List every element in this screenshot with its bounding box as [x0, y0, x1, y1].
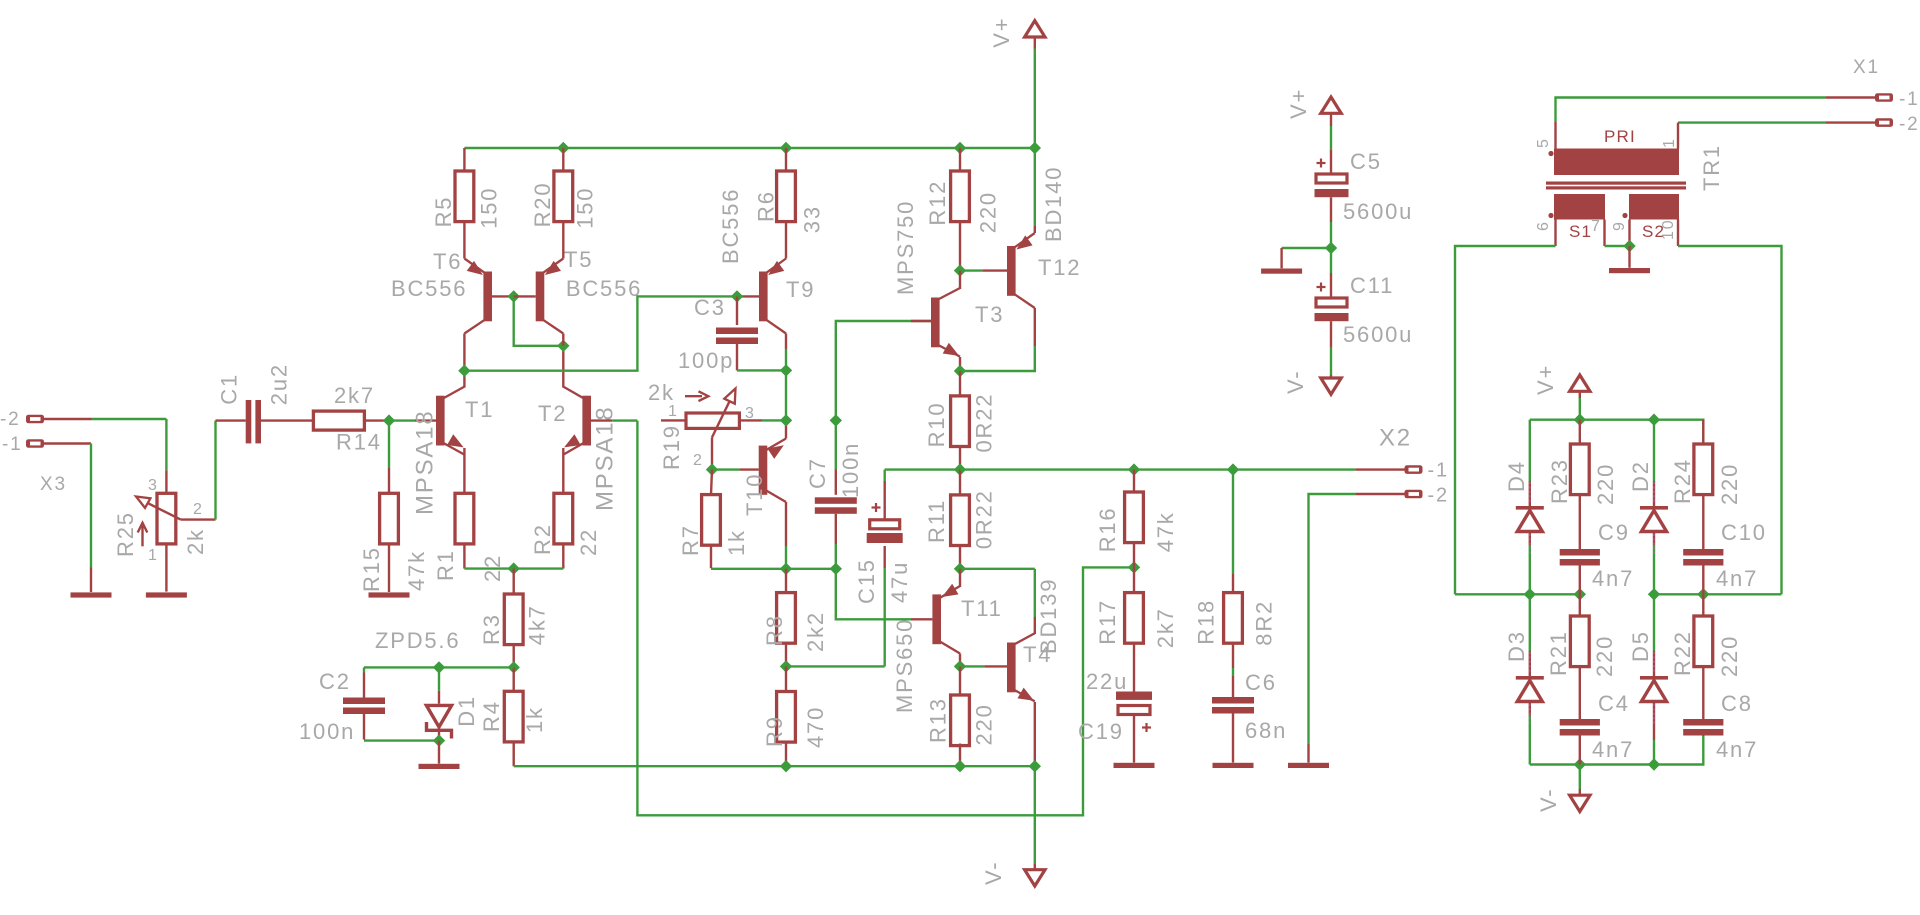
- capacitor C2: [343, 667, 439, 740]
- label BD140: [1041, 166, 1066, 242]
- label T12: [1038, 255, 1081, 280]
- label 4k7: [525, 604, 550, 645]
- TR1 pin1 label: [1661, 137, 1678, 148]
- TR1 pin7 label: [1591, 218, 1602, 235]
- junction emitters node: [508, 562, 520, 574]
- junction VAS/R19 pin3: [780, 414, 792, 426]
- transistor T10: [759, 439, 786, 503]
- svg-text:1k: 1k: [522, 706, 547, 733]
- label T4: [1023, 642, 1052, 667]
- junction T9 base/C3: [731, 290, 743, 302]
- label D1: [454, 695, 479, 727]
- label R19: [659, 424, 684, 470]
- wire T5 collector to T2: [562, 334, 564, 346]
- svg-text:C9: C9: [1598, 520, 1630, 545]
- label R13: [925, 697, 950, 743]
- label 220 R13: [972, 703, 997, 745]
- wire T11 emitter up: [959, 569, 961, 587]
- wire rect bottom rail: [1530, 736, 1704, 765]
- svg-text:MPSA18: MPSA18: [412, 409, 439, 515]
- svg-text:T6: T6: [433, 249, 462, 274]
- label 47k R16: [1153, 511, 1178, 552]
- svg-text:R19: R19: [659, 424, 684, 470]
- label R7: [678, 524, 703, 556]
- label 2k2: [803, 611, 828, 652]
- svg-text:2k7: 2k7: [334, 383, 375, 408]
- wire R12 to node: [959, 222, 961, 271]
- junction psu mid: [1325, 242, 1337, 254]
- label 68n: [1245, 718, 1287, 743]
- wire X3-2 to node: [44, 418, 166, 420]
- svg-text:X3: X3: [40, 474, 67, 495]
- svg-text:BC556: BC556: [566, 276, 642, 301]
- R25 adjust arrow: [138, 523, 148, 547]
- resistor R13: [951, 666, 970, 745]
- svg-text:100n: 100n: [299, 719, 355, 744]
- label C5: [1350, 149, 1382, 174]
- svg-text:V+: V+: [1286, 88, 1311, 119]
- label MPSA18 T2: [592, 405, 619, 511]
- label 5600u C5: [1343, 199, 1413, 224]
- svg-text:C10: C10: [1721, 520, 1767, 545]
- junction T11 collector/T4 base: [954, 660, 966, 672]
- label R9: [762, 715, 787, 747]
- label C1: [217, 373, 242, 405]
- capacitor C8: [1683, 667, 1723, 736]
- svg-text:220: 220: [972, 703, 997, 745]
- wire mirror base down: [514, 296, 564, 345]
- label T3: [975, 302, 1004, 327]
- svg-text:BD140: BD140: [1041, 166, 1066, 242]
- label C4: [1598, 691, 1630, 716]
- wire T9 collector: [785, 334, 787, 371]
- svg-text:V-: V-: [1283, 370, 1308, 394]
- junction at R14/T1 base: [383, 414, 395, 426]
- svg-text:MPS750: MPS750: [893, 200, 918, 295]
- svg-text:R17: R17: [1095, 599, 1120, 645]
- ground for X2-2: [1288, 763, 1329, 768]
- TR1 pin9 dot: [1622, 213, 1627, 218]
- wire R11 to emitter node: [959, 546, 961, 569]
- label C9: [1598, 520, 1630, 545]
- wire R2 to emitter node: [514, 544, 564, 569]
- label 0R22 R11: [972, 489, 997, 549]
- C11 plus sign: [1317, 283, 1326, 292]
- svg-text:1: 1: [668, 403, 679, 420]
- capacitor C7: [815, 420, 857, 568]
- junction R16/R17: [1128, 561, 1140, 573]
- junction TR1 center tap: [1623, 240, 1635, 252]
- wire R19 wiper down: [711, 437, 713, 469]
- ground for R25: [146, 592, 187, 597]
- svg-text:C1: C1: [217, 373, 242, 405]
- transistor T4: [1007, 633, 1035, 701]
- label 220 R23: [1593, 463, 1618, 505]
- label 1k R7: [724, 529, 749, 556]
- label C10: [1721, 520, 1767, 545]
- TR1 pin10 label: [1660, 219, 1677, 240]
- svg-text:R21: R21: [1546, 630, 1571, 676]
- wire T10 emitter: [785, 420, 787, 438]
- ground for C19: [1114, 763, 1155, 768]
- wire X2-2 to ground: [1309, 494, 1405, 763]
- wire VAS feed: [464, 296, 737, 370]
- transistor T9: [759, 259, 786, 334]
- svg-text:2k7: 2k7: [1153, 607, 1178, 648]
- ground psu: [1261, 269, 1302, 274]
- svg-text:D2: D2: [1628, 460, 1653, 492]
- junction top rail D2: [1648, 414, 1660, 426]
- svg-text:68n: 68n: [1245, 718, 1287, 743]
- label R18: [1194, 599, 1219, 645]
- resistor R20: [554, 148, 573, 222]
- resistor R8: [777, 569, 796, 643]
- potentiometer R25 body: [157, 470, 176, 591]
- wire TR1 pin10 to rectifier: [1678, 220, 1782, 595]
- transistor T6: [464, 259, 492, 334]
- zener diode D1: [426, 667, 451, 740]
- label 5600u C11: [1343, 322, 1413, 347]
- svg-text:D5: D5: [1628, 630, 1653, 662]
- svg-text:2: 2: [693, 452, 704, 469]
- resistor R4: [504, 667, 523, 741]
- label V- bottom: [981, 861, 1006, 885]
- svg-text:PRI: PRI: [1604, 127, 1636, 146]
- svg-text:R15: R15: [359, 546, 384, 592]
- junction top rail R23: [1574, 414, 1586, 426]
- svg-text:C2: C2: [319, 669, 351, 694]
- label 220 R21: [1592, 635, 1617, 677]
- svg-text:9: 9: [1611, 220, 1628, 231]
- wire T6 collector down: [463, 334, 465, 371]
- label C7: [805, 457, 830, 489]
- svg-text:47u: 47u: [887, 561, 912, 603]
- junction bottom rail T4: [1029, 760, 1041, 772]
- svg-text:V-: V-: [1536, 788, 1561, 812]
- wire R25 pin2 up to C1: [214, 421, 216, 520]
- svg-text:8R2: 8R2: [1252, 600, 1277, 646]
- wire T10 collector down: [785, 502, 787, 569]
- power V- arrow bottom: [1025, 766, 1045, 886]
- wire X1-1 to TR1 pin5: [1556, 98, 1876, 149]
- label V+ psu: [1286, 88, 1311, 119]
- label 22 R1: [480, 554, 505, 582]
- label 2k7 R17: [1153, 607, 1178, 648]
- diode D5: [1640, 594, 1668, 764]
- svg-text:-1: -1: [1899, 89, 1920, 110]
- capacitor C19 electrolytic: [1116, 643, 1152, 762]
- svg-text:470: 470: [803, 706, 828, 748]
- label 100n C7: [838, 442, 863, 498]
- svg-text:47k: 47k: [404, 550, 429, 591]
- label 150 R5: [477, 187, 502, 229]
- wire T4 emitter down: [1034, 702, 1036, 766]
- label T10: [742, 473, 767, 516]
- wire T3 base pin: [911, 320, 931, 322]
- svg-text:C11: C11: [1350, 273, 1394, 298]
- wire R16 to fb node: [1133, 543, 1135, 568]
- wire node to C15: [786, 665, 885, 667]
- capacitor C5 electrolytic: [1315, 174, 1349, 197]
- wire R14 to T1 base: [364, 419, 436, 421]
- label R10: [924, 402, 949, 448]
- svg-text:150: 150: [477, 187, 502, 229]
- svg-text:T5: T5: [564, 247, 593, 272]
- ground for R15: [369, 592, 410, 597]
- resistor R24: [1694, 420, 1713, 495]
- junction mid rail D4: [1524, 588, 1536, 600]
- svg-text:3: 3: [745, 405, 756, 422]
- svg-text:V+: V+: [1533, 364, 1558, 395]
- wire T3 base run: [836, 321, 931, 420]
- label 4n7 C10: [1716, 566, 1758, 591]
- power V+ arrow psu: [1321, 97, 1341, 174]
- svg-text:C15: C15: [854, 558, 879, 604]
- svg-text:2k: 2k: [648, 380, 675, 405]
- svg-text:1k: 1k: [724, 529, 749, 556]
- trimmer R19 body: [661, 413, 786, 428]
- svg-text:ZPD5.6: ZPD5.6: [375, 628, 460, 653]
- label 220 R24: [1717, 463, 1742, 505]
- label PRI: [1604, 127, 1636, 146]
- wire R20 to T5 emitter: [562, 222, 564, 259]
- svg-text:100n: 100n: [838, 442, 863, 498]
- wire X3-2 down to R25 pin3: [165, 419, 167, 470]
- label R16: [1095, 507, 1120, 553]
- svg-text:5600u: 5600u: [1343, 199, 1413, 224]
- label C8: [1721, 691, 1753, 716]
- capacitor C10: [1683, 495, 1723, 595]
- junction mid rail R23col: [1574, 588, 1586, 600]
- wire T2 emitter to R2: [562, 448, 564, 493]
- R19 adjust arrow: [685, 391, 708, 401]
- wire VAS node down: [785, 370, 787, 420]
- svg-text:T9: T9: [786, 277, 815, 302]
- junction output rail R18: [1227, 463, 1239, 475]
- svg-text:R11: R11: [924, 499, 949, 543]
- junction bottom rail R9: [780, 760, 792, 772]
- R25 pin label 1: [148, 547, 159, 564]
- svg-text:33: 33: [799, 205, 824, 233]
- junction T9 collector node: [780, 364, 792, 376]
- resistor R9: [777, 666, 796, 742]
- svg-text:R24: R24: [1670, 458, 1695, 504]
- svg-text:R18: R18: [1194, 599, 1219, 645]
- wire down to R15: [388, 421, 390, 494]
- wire rect mid rail right: [1654, 593, 1782, 595]
- junction T10 collector node: [780, 563, 792, 575]
- svg-text:C6: C6: [1245, 670, 1277, 695]
- C5 plus sign: [1317, 159, 1326, 168]
- svg-text:R22: R22: [1670, 630, 1695, 676]
- wire C1 left: [216, 419, 246, 421]
- label X1: [1853, 57, 1880, 78]
- label S2: [1642, 222, 1665, 241]
- power V- arrow rect: [1570, 765, 1590, 812]
- capacitor C6: [1212, 643, 1254, 762]
- svg-text:220: 220: [1592, 635, 1617, 677]
- wire V+ rail: [464, 147, 1034, 149]
- label 2k R19: [648, 380, 675, 405]
- transformer TR1 secondary S1: [1554, 194, 1605, 220]
- wire T2 base: [591, 419, 637, 421]
- junction rail R12: [954, 142, 966, 154]
- junction output rail R10/R11: [954, 463, 966, 475]
- capacitor C3: [716, 296, 786, 370]
- wire rect mid rail left: [1455, 593, 1580, 595]
- wire T2 collector: [562, 346, 564, 388]
- transformer TR1 primary: [1554, 149, 1679, 176]
- label 8R2: [1252, 600, 1277, 646]
- R25 pin 2 line: [181, 518, 216, 520]
- R25 wiper arrow: [136, 497, 181, 520]
- power V+ arrow top: [1025, 21, 1045, 148]
- label R5: [431, 196, 456, 228]
- svg-text:R25: R25: [113, 511, 138, 557]
- connector X2 pin -2: [1405, 485, 1449, 507]
- svg-text:R12: R12: [925, 180, 950, 226]
- wire T6 base to junction: [492, 295, 514, 297]
- label 33: [799, 205, 824, 233]
- svg-text:0R22: 0R22: [972, 489, 997, 549]
- svg-text:C3: C3: [694, 295, 726, 320]
- svg-text:X1: X1: [1853, 57, 1880, 78]
- label MPS750: [893, 200, 918, 295]
- transformer TR1 core: [1546, 182, 1686, 190]
- label R21: [1546, 630, 1571, 676]
- label R15: [359, 546, 384, 592]
- svg-text:-2: -2: [0, 409, 21, 430]
- svg-text:4n7: 4n7: [1716, 737, 1758, 762]
- junction T3 emitter/R10: [954, 365, 966, 377]
- wire T5 base: [514, 295, 536, 297]
- svg-text:T1: T1: [465, 397, 494, 422]
- svg-text:BD139: BD139: [1036, 578, 1061, 654]
- svg-text:R23: R23: [1547, 458, 1572, 504]
- TR1 pin5 dot: [1548, 151, 1553, 156]
- diode D4: [1516, 420, 1544, 595]
- C19 plus sign: [1142, 723, 1151, 732]
- label T9: [786, 277, 815, 302]
- label R17: [1095, 599, 1120, 645]
- label 2k7: [334, 383, 375, 408]
- svg-text:T10: T10: [742, 473, 767, 516]
- junction bottom rail D5: [1648, 758, 1660, 770]
- resistor R5: [455, 148, 474, 222]
- ground for X3-1: [71, 592, 112, 597]
- connector X1 pin -1: [1875, 89, 1920, 110]
- label T6: [433, 249, 462, 274]
- wire C15 top to output rail: [885, 468, 960, 470]
- label ZPD5.6: [375, 628, 460, 653]
- resistor R11: [951, 470, 970, 546]
- label 2u2: [267, 363, 292, 405]
- ground for D1: [419, 764, 460, 769]
- label R1: [433, 549, 458, 581]
- label C6: [1245, 670, 1277, 695]
- transistor T3: [931, 288, 960, 357]
- svg-text:4k7: 4k7: [525, 604, 550, 645]
- R19 wiper arrow: [712, 389, 736, 438]
- capacitor C11 electrolytic: [1315, 248, 1349, 321]
- label V+ top: [989, 17, 1014, 48]
- resistor R17: [1125, 567, 1144, 643]
- resistor R3: [504, 569, 523, 645]
- TR1 pin6 label: [1535, 220, 1552, 231]
- junction C7 top node: [830, 414, 842, 426]
- svg-text:6: 6: [1535, 220, 1552, 231]
- label T1: [465, 397, 494, 422]
- junction bottom rail R13: [954, 760, 966, 772]
- wire T12 base: [960, 269, 1007, 271]
- svg-text:1: 1: [1661, 137, 1678, 148]
- svg-text:R9: R9: [762, 715, 787, 747]
- wire R10 to output rail: [959, 447, 961, 470]
- label 220 R22: [1717, 635, 1742, 677]
- junction R12/T3 collector/T12 base: [954, 264, 966, 276]
- svg-text:2k2: 2k2: [803, 611, 828, 652]
- wire bottom rail: [514, 765, 1035, 767]
- label T5: [564, 247, 593, 272]
- svg-text:V+: V+: [989, 17, 1014, 48]
- junction bottom rail V-: [1574, 758, 1586, 770]
- wire T11 collector down: [959, 654, 961, 667]
- wire psu mid to ground: [1282, 248, 1331, 268]
- connector X2 pin -1: [1405, 460, 1449, 482]
- resistor R12: [951, 148, 970, 222]
- wire feedback T2 base run: [637, 421, 1134, 816]
- power V- arrow psu: [1321, 321, 1341, 394]
- label R22: [1670, 630, 1695, 676]
- wire T9 base: [737, 295, 759, 297]
- wire R3 to node: [513, 645, 515, 668]
- label C19: [1078, 719, 1124, 744]
- resistor R1: [455, 493, 474, 544]
- svg-text:-2: -2: [1428, 485, 1449, 507]
- svg-text:4n7: 4n7: [1592, 566, 1634, 591]
- svg-text:100p: 100p: [678, 348, 734, 373]
- svg-text:-1: -1: [1428, 460, 1449, 482]
- label D2: [1628, 460, 1653, 492]
- wire R7 to node: [711, 545, 786, 569]
- svg-text:V-: V-: [981, 861, 1006, 885]
- svg-text:MPS650: MPS650: [892, 618, 917, 713]
- wire D1 to ground: [438, 741, 440, 764]
- label 220 R12: [975, 191, 1000, 233]
- transistor T1: [436, 387, 464, 455]
- svg-text:220: 220: [975, 191, 1000, 233]
- label V+ rect: [1533, 364, 1558, 395]
- resistor R7: [702, 470, 721, 546]
- svg-text:C5: C5: [1350, 149, 1382, 174]
- label MPSA18 T1: [412, 409, 439, 515]
- label R2: [530, 523, 555, 555]
- wire rect top rail: [1530, 420, 1704, 444]
- svg-text:R6: R6: [753, 190, 778, 222]
- label 47u: [887, 561, 912, 603]
- wire TR1 pin7: [1605, 220, 1630, 247]
- label D5: [1628, 630, 1653, 662]
- label X3: [40, 474, 67, 495]
- svg-text:C7: C7: [805, 457, 830, 489]
- diode D3: [1516, 594, 1544, 764]
- label R14: [336, 430, 382, 455]
- resistor R16: [1125, 470, 1144, 543]
- svg-text:D1: D1: [454, 695, 479, 727]
- resistor R6: [777, 148, 796, 222]
- svg-text:R8: R8: [762, 614, 787, 646]
- label R20: [530, 182, 555, 228]
